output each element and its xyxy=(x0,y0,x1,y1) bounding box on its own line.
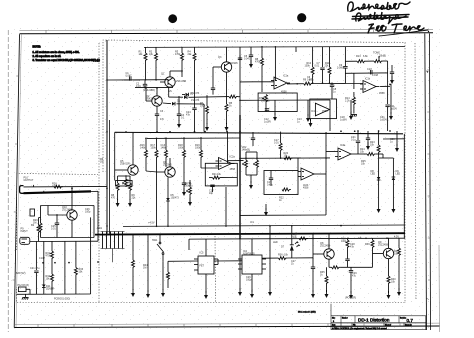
svg-text:100p: 100p xyxy=(246,279,252,282)
svg-text:2.2k: 2.2k xyxy=(345,100,350,103)
svg-text:0.01: 0.01 xyxy=(315,65,320,68)
svg-text:0.018: 0.018 xyxy=(372,74,379,77)
svg-text:100k: 100k xyxy=(195,147,201,150)
svg-text:Revision: Revision xyxy=(400,318,406,320)
svg-text:4.5V: 4.5V xyxy=(394,236,399,239)
svg-text:6.8k: 6.8k xyxy=(363,55,368,58)
svg-text:Number: Number xyxy=(342,318,348,320)
svg-text:(2SK-68R): (2SK-68R) xyxy=(143,89,155,92)
svg-text:47u: 47u xyxy=(352,275,357,278)
svg-text:470k: 470k xyxy=(255,61,261,64)
svg-text:47u: 47u xyxy=(126,182,131,185)
svg-text:1u50V: 1u50V xyxy=(390,108,397,111)
svg-text:File: File xyxy=(353,324,356,326)
svg-text:1. All resistors are in ohms,: 1. All resistors are in ohms, 1/4W, +-5%… xyxy=(33,51,80,54)
svg-text:R13: R13 xyxy=(356,55,361,58)
svg-text:1S2473: 1S2473 xyxy=(171,197,180,200)
svg-text:47p: 47p xyxy=(160,118,165,121)
svg-text:LED: LED xyxy=(371,173,376,176)
svg-text:4-FEB-1 CONTROL (De engineered: 4-FEB-1 CONTROL (De engineered / Roland … xyxy=(332,328,387,330)
svg-text:0.01: 0.01 xyxy=(51,228,56,231)
svg-text:2. All capacitors are in uF.: 2. All capacitors are in uF. xyxy=(33,55,62,58)
svg-text:1S2473: 1S2473 xyxy=(191,99,200,102)
svg-text:0.05: 0.05 xyxy=(307,79,312,82)
svg-text:4558: 4558 xyxy=(281,91,287,94)
svg-text:1S2473: 1S2473 xyxy=(191,92,200,95)
svg-text:2SC2458: 2SC2458 xyxy=(62,209,73,212)
svg-text:3. Transistor are equal 2SC245: 3. Transistor are equal 2SC2458,Q5=2SK30… xyxy=(33,59,100,62)
svg-text:ZENER: ZENER xyxy=(46,288,54,291)
svg-text:2SB-52R: 2SB-52R xyxy=(120,163,130,166)
svg-text:100k: 100k xyxy=(178,147,184,150)
svg-text:0.0068: 0.0068 xyxy=(337,67,345,70)
svg-text:IC2a: IC2a xyxy=(230,156,236,159)
svg-text:100k: 100k xyxy=(305,65,311,68)
svg-text:0.01: 0.01 xyxy=(274,142,279,145)
svg-text:NJM78L05: NJM78L05 xyxy=(243,253,255,256)
svg-text:1u16V: 1u16V xyxy=(264,121,271,124)
svg-text:+4.5V: +4.5V xyxy=(148,222,155,225)
svg-text:CN1: CN1 xyxy=(97,227,103,230)
svg-text:IC3a: IC3a xyxy=(340,144,346,147)
svg-text:2SC2458: 2SC2458 xyxy=(320,245,331,248)
svg-text:1M: 1M xyxy=(100,161,103,164)
svg-text:146k: 146k xyxy=(140,147,146,150)
svg-text:NOTE:: NOTE: xyxy=(33,45,41,49)
svg-text:146k: 146k xyxy=(161,147,167,150)
svg-text:4558: 4558 xyxy=(303,187,309,190)
svg-text:4558: 4558 xyxy=(379,92,385,95)
svg-text:2SC2458: 2SC2458 xyxy=(378,244,389,247)
svg-text:GS: GS xyxy=(168,90,172,93)
svg-text:BAT(9V): BAT(9V) xyxy=(16,272,26,275)
svg-text:IC1b: IC1b xyxy=(365,78,371,81)
svg-text:0.7: 0.7 xyxy=(407,318,414,323)
svg-text:0.01: 0.01 xyxy=(136,85,141,88)
svg-text:C10: C10 xyxy=(367,68,372,71)
svg-text:INPUT: INPUT xyxy=(21,230,29,233)
svg-text:PCB-DS1 (D/D): PCB-DS1 (D/D) xyxy=(54,299,70,301)
svg-text:(POWER): (POWER) xyxy=(345,297,356,300)
svg-text:1u16V: 1u16V xyxy=(340,119,347,122)
svg-text:LED: LED xyxy=(396,173,401,176)
svg-text:B: B xyxy=(333,321,334,323)
svg-text:47p: 47p xyxy=(186,114,191,117)
svg-text:0.47u: 0.47u xyxy=(267,184,274,187)
svg-text:R36: R36 xyxy=(278,254,283,257)
svg-text:IC1b: IC1b xyxy=(311,110,317,113)
svg-text:20k(B): 20k(B) xyxy=(379,55,386,58)
svg-text:1u50V: 1u50V xyxy=(380,119,387,122)
svg-text:100k: 100k xyxy=(151,147,157,150)
svg-text:146k(B): 146k(B) xyxy=(242,149,251,152)
svg-text:C21 47u: C21 47u xyxy=(30,267,40,270)
svg-text:DD-1 revised 1 (D/D): DD-1 revised 1 (D/D) xyxy=(298,311,316,314)
svg-text:2SC945: 2SC945 xyxy=(163,164,172,167)
svg-text:2SK30A: 2SK30A xyxy=(146,98,155,101)
svg-text:100k: 100k xyxy=(200,105,206,108)
svg-text:LED: LED xyxy=(273,241,278,244)
svg-text:4558: 4558 xyxy=(230,168,236,171)
svg-text:0.1u: 0.1u xyxy=(351,139,356,142)
svg-text:0.047: 0.047 xyxy=(244,58,251,61)
svg-text:SW1: SW1 xyxy=(152,239,158,242)
svg-text:47p: 47p xyxy=(350,246,355,249)
svg-text:4558: 4558 xyxy=(322,110,328,113)
svg-text:DD-1 Distortion: DD-1 Distortion xyxy=(358,318,390,323)
svg-text:OUTPUT: OUTPUT xyxy=(24,179,34,182)
svg-text:100p: 100p xyxy=(85,211,91,214)
svg-text:2SC945: 2SC945 xyxy=(229,62,238,65)
svg-text:Size: Size xyxy=(332,318,335,320)
svg-text:0.047: 0.047 xyxy=(126,75,133,78)
svg-text:2SK-68R: 2SK-68R xyxy=(176,80,186,83)
svg-text:100: 100 xyxy=(52,185,57,188)
svg-text:1M: 1M xyxy=(143,267,146,270)
svg-text:100k(A): 100k(A) xyxy=(184,185,193,188)
svg-text:Drawn by: Drawn by xyxy=(405,324,412,326)
svg-text:100k: 100k xyxy=(341,240,347,243)
svg-text:10p: 10p xyxy=(209,192,214,195)
svg-text:470k: 470k xyxy=(175,53,181,56)
svg-text:R39: R39 xyxy=(365,243,370,246)
svg-text:IC1a: IC1a xyxy=(283,75,289,78)
svg-text:FET: FET xyxy=(200,265,205,268)
svg-text:470: 470 xyxy=(111,197,116,200)
svg-text:470k: 470k xyxy=(46,255,52,258)
svg-text:IC5: IC5 xyxy=(200,252,205,255)
svg-text:100k(B): 100k(B) xyxy=(261,100,270,103)
svg-text:P12 DC(X): P12 DC(X) xyxy=(18,284,30,287)
